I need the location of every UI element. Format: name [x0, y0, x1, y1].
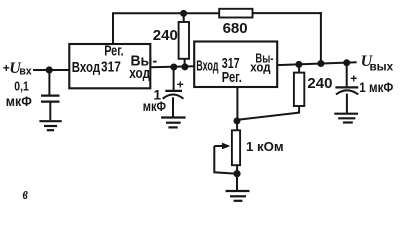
capacitor C3 1uF plates — [335, 87, 358, 94]
svg-text:0,1: 0,1 — [14, 79, 28, 94]
wire C2 top lead — [173, 67, 175, 90]
label 1 кОм — [246, 139, 284, 154]
svg-text:240: 240 — [153, 27, 178, 44]
svg-text:1 мкФ: 1 мкФ — [359, 80, 393, 95]
wire top rail left segment — [113, 12, 219, 14]
wire U2 adjust down — [236, 87, 238, 121]
svg-text:680: 680 — [223, 20, 248, 37]
node adjust junction — [234, 117, 241, 124]
capacitor C2 1uF plates — [163, 91, 184, 99]
wire R240a top lead — [183, 13, 185, 22]
wire R240a bottom lead — [184, 59, 186, 67]
node input to C1 — [46, 66, 53, 73]
regulator U2 box 317 — [194, 42, 277, 88]
ground under C1 — [39, 121, 61, 130]
label 1 мкФ right — [359, 80, 393, 95]
svg-text:Рег.: Рег. — [104, 43, 124, 60]
node R240a junction — [181, 63, 188, 70]
svg-text:+: + — [350, 72, 357, 86]
wire wiper to bottom node — [214, 146, 237, 174]
label в figure letter — [23, 184, 29, 203]
ground under pot — [226, 191, 250, 201]
capacitor C1 top lead — [48, 70, 50, 95]
potentiometer 1 kOm body — [232, 130, 240, 165]
svg-text:Вход: Вход — [196, 58, 219, 75]
node pot bottom — [233, 170, 240, 177]
svg-text:Рег.: Рег. — [222, 69, 242, 86]
wire pot top lead — [236, 121, 238, 130]
resistor 240 first — [179, 22, 189, 59]
wire C3 top lead — [346, 63, 348, 87]
wire C1 to ground — [49, 102, 51, 121]
node C3 top — [343, 59, 350, 66]
svg-text:240: 240 — [307, 75, 332, 92]
label 240 first — [153, 27, 178, 44]
node R240b top — [295, 61, 302, 68]
label 0,1 мкФ — [6, 79, 32, 110]
wire output — [277, 62, 356, 65]
label +Uвх — [3, 60, 32, 78]
label + of C3 — [350, 72, 357, 86]
svg-text:1 кОм: 1 кОм — [246, 139, 284, 154]
ground under C3 — [334, 114, 358, 123]
resistor 680 — [219, 9, 252, 18]
label 680 — [223, 20, 248, 37]
svg-text:мкФ: мкФ — [143, 99, 167, 114]
node rail corner — [317, 60, 324, 67]
svg-text:317: 317 — [101, 59, 121, 76]
svg-text:вх: вх — [19, 66, 32, 78]
capacitor C1 0,1uF plates — [41, 96, 60, 102]
resistor 240 second — [294, 73, 304, 106]
svg-text:вых: вых — [370, 60, 394, 73]
wire U1 out to U2 in — [150, 65, 194, 68]
wire top rail right segment — [252, 12, 321, 14]
wire C2 to ground — [172, 97, 174, 116]
wire pot node to ground — [236, 174, 238, 191]
ground under C2 — [161, 118, 186, 128]
wire C3 to ground — [346, 94, 348, 113]
node C2 junction — [170, 64, 177, 71]
svg-text:ход: ход — [250, 60, 271, 75]
label 240 second — [307, 75, 332, 92]
wire U1 adjust pin to top rail — [112, 12, 114, 44]
potentiometer wiper arrow — [214, 143, 230, 150]
svg-text:мкФ: мкФ — [6, 94, 32, 109]
wire adjust node to R240b bottom — [238, 106, 299, 120]
svg-text:+: + — [177, 77, 184, 91]
svg-text:ход: ход — [129, 65, 150, 82]
label 1 мкФ middle — [143, 87, 167, 114]
label Uвых — [361, 53, 394, 73]
wire rail down to output node — [320, 12, 322, 63]
regulator U1 box 317 — [69, 43, 157, 89]
wire R240b top lead — [298, 64, 300, 72]
wire pot bottom lead — [236, 165, 238, 174]
label + of C2 — [177, 77, 184, 91]
node junction rail to R240a — [180, 10, 187, 17]
svg-text:в: в — [23, 184, 29, 203]
wire input — [33, 69, 69, 71]
svg-text:Вход: Вход — [72, 59, 101, 76]
